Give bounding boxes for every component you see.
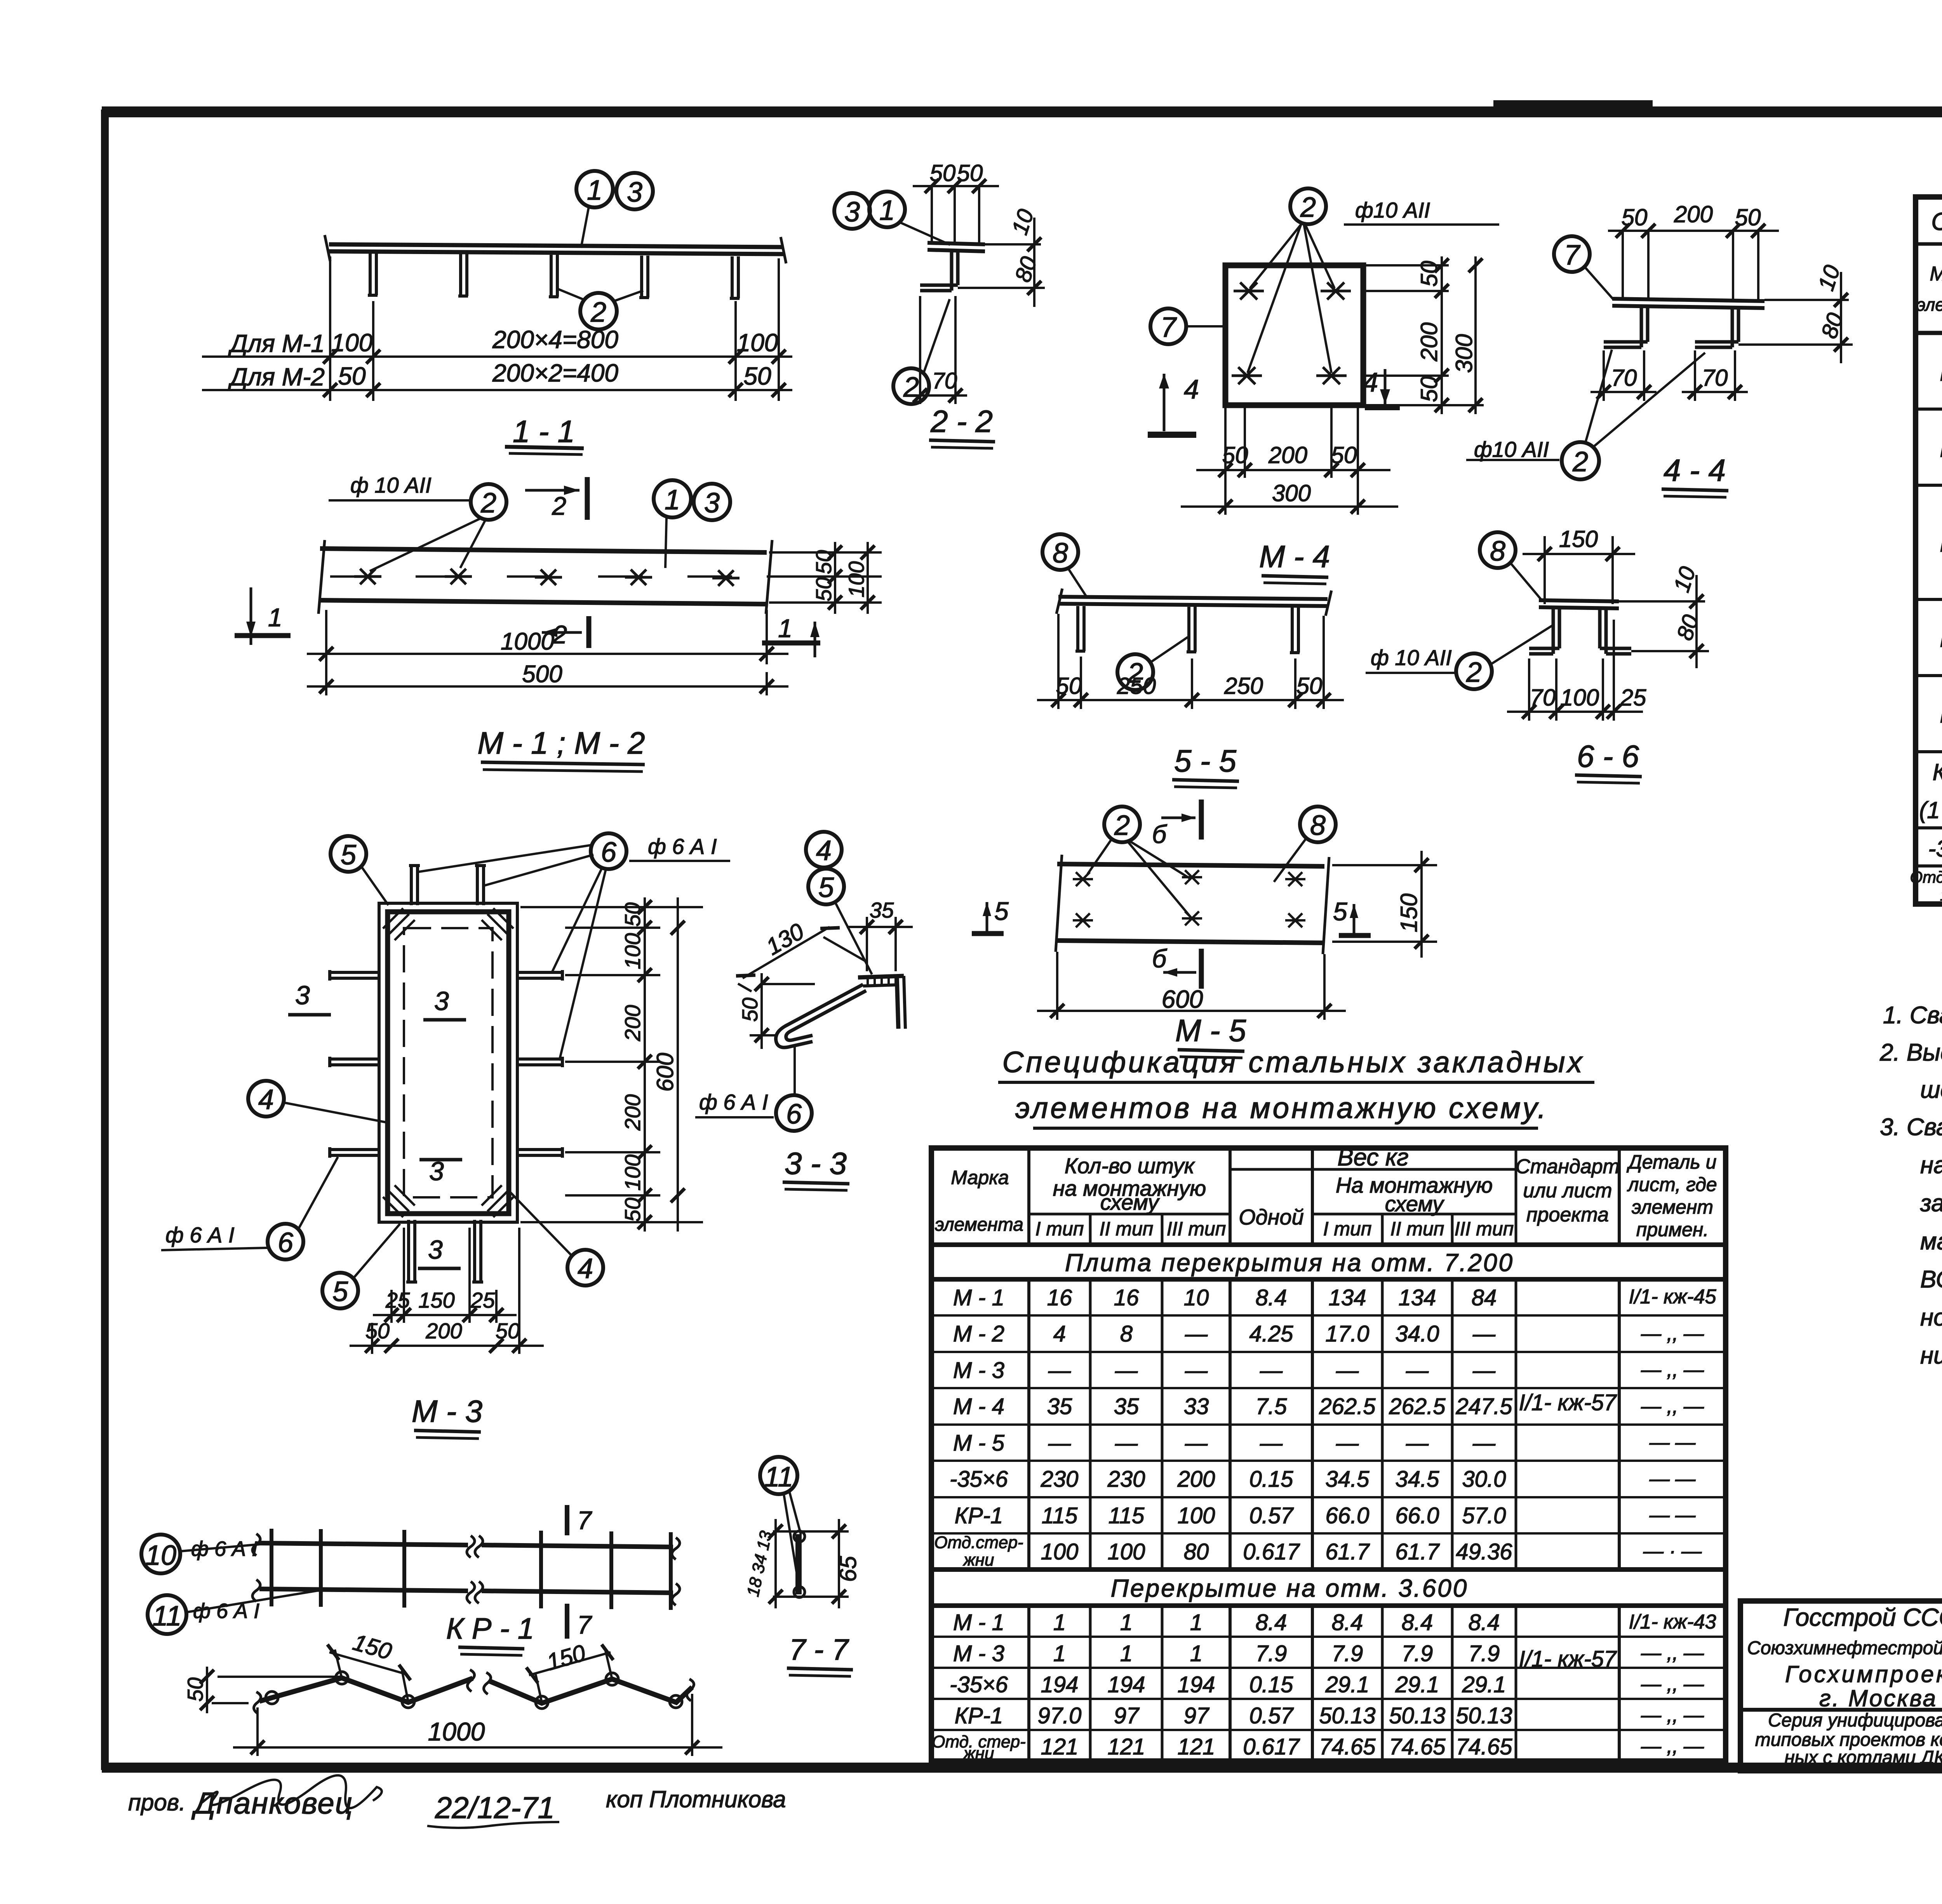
section mark 3 (inside top) (423, 986, 466, 1020)
svg-text:65: 65 (835, 1556, 861, 1582)
svg-text:элемента: элемента (935, 1214, 1023, 1235)
svg-text:0.57: 0.57 (1249, 1503, 1295, 1528)
label 1-1 (505, 414, 584, 455)
svg-text:-35×6: -35×6 (950, 1672, 1008, 1697)
svg-text:100: 100 (1560, 685, 1599, 711)
svg-text:34.0: 34.0 (1396, 1321, 1439, 1347)
svg-text:6: 6 (278, 1227, 294, 1258)
svg-text:2. Высоту сварных швов прин: 2. Высоту сварных швов принять по наимен… (1879, 1039, 1942, 1066)
svg-text:1000: 1000 (501, 628, 554, 655)
svg-text:7.9: 7.9 (1332, 1641, 1363, 1666)
М-4 bottom total 300 (1181, 478, 1398, 515)
svg-text:I/1- кж-43: I/1- кж-43 (1629, 1611, 1716, 1633)
svg-text:2: 2 (552, 620, 567, 649)
svg-text:1. Сварку производить электр: 1. Сварку производить электродами типа Э… (1883, 1002, 1942, 1029)
svg-text:— ,, —: — ,, — (1641, 1673, 1704, 1695)
svg-text:ф 6 А I: ф 6 А I (191, 1537, 258, 1561)
svg-text:6: 6 (601, 837, 617, 868)
svg-text:194: 194 (1041, 1672, 1079, 1697)
М-4 right total 300 (1451, 256, 1483, 414)
label КР-1 (446, 1612, 534, 1655)
svg-text:Госхимпроект: Госхимпроект (1785, 1661, 1942, 1687)
callout circle 2 (4-4) (1562, 350, 1705, 479)
svg-text:50.13: 50.13 (1456, 1703, 1512, 1728)
svg-text:7 - 7: 7 - 7 (789, 1633, 849, 1666)
zigzag node circles (266, 1672, 682, 1709)
М-3 angle frame (pos 4,5) (379, 903, 517, 1222)
М-5 bottom dim 600 (1037, 952, 1346, 1020)
svg-text:7.9: 7.9 (1402, 1641, 1433, 1666)
svg-text:4: 4 (1363, 367, 1378, 397)
svg-text:1: 1 (1120, 1641, 1133, 1666)
svg-text:16: 16 (1047, 1285, 1072, 1310)
svg-text:Дпанковец: Дпанковец (191, 1786, 353, 1820)
label ф10АII (М-4) (1344, 198, 1499, 225)
svg-text:—: — (1185, 1358, 1208, 1383)
svg-text:4: 4 (258, 1084, 274, 1115)
svg-text:— ,, —: — ,, — (1641, 1735, 1704, 1758)
svg-text:50: 50 (365, 1319, 390, 1343)
svg-text:11: 11 (153, 1601, 182, 1632)
callout circle 11 (7-7) (760, 1457, 801, 1589)
svg-text:66.0: 66.0 (1326, 1503, 1369, 1528)
svg-text:2: 2 (590, 297, 606, 328)
svg-text:Отд.стер-: Отд.стер- (934, 1533, 1023, 1552)
svg-text:—: — (1115, 1430, 1138, 1456)
label ф6АI + callout circle 6 (3-3) (695, 1090, 774, 1117)
svg-text:Кол-во штук: Кол-во штук (1065, 1153, 1195, 1178)
svg-text:М - 1: М - 1 (953, 1285, 1004, 1310)
svg-text:50: 50 (1416, 261, 1442, 287)
label М-3 (412, 1394, 482, 1439)
svg-text:КР-1: КР-1 (955, 1703, 1003, 1728)
КР-1 zigzag (pos 11 wire) (259, 1678, 692, 1703)
svg-text:50.13: 50.13 (1389, 1703, 1445, 1728)
svg-text:3: 3 (627, 177, 642, 208)
svg-text:97.0: 97.0 (1038, 1703, 1082, 1728)
svg-text:ф 6 А I: ф 6 А I (648, 834, 717, 859)
svg-text:шей толщине свариваемых эле: шей толщине свариваемых элементов. (1920, 1077, 1942, 1103)
central table grid (931, 1148, 1726, 1761)
svg-text:5: 5 (818, 872, 834, 903)
svg-text:заниями по технологии элект: заниями по технологии электросварки ар- (1920, 1190, 1942, 1217)
callout circle 4 (М-3 left) (248, 1081, 388, 1123)
svg-text:115: 115 (1108, 1503, 1145, 1528)
svg-text:100: 100 (844, 561, 868, 598)
svg-text:200: 200 (1177, 1467, 1215, 1492)
svg-text:0.617: 0.617 (1243, 1539, 1300, 1564)
title block org (1747, 1603, 1942, 1768)
svg-text:Плита перекрытия на отм. 7.: Плита перекрытия на отм. 7.200 (1065, 1249, 1514, 1277)
svg-text:11: 11 (764, 1462, 794, 1493)
notes text (1879, 1002, 1942, 1369)
callout circle 10 + label (141, 1535, 260, 1573)
svg-text:1: 1 (1053, 1641, 1066, 1666)
svg-text:29.1: 29.1 (1325, 1672, 1369, 1697)
М-4 plate outline (pos 7) (1225, 265, 1363, 405)
5-5 plate (pos 8) (1056, 589, 1331, 616)
М-3 corner welds (383, 908, 513, 1217)
КР-1 cross rods (pos 11) (271, 1529, 671, 1610)
spec table col Марка элемента (1910, 360, 1942, 904)
svg-text:0.617: 0.617 (1243, 1734, 1300, 1759)
svg-text:М - 1 ; М - 2: М - 1 ; М - 2 (477, 726, 645, 760)
svg-text:М-4: М-4 (1940, 626, 1942, 652)
2-2 anchor plate (pos 1) (927, 243, 985, 251)
svg-text:29.1: 29.1 (1462, 1672, 1506, 1697)
7-7 bar (794, 1531, 805, 1597)
callout circle 2 (6-6) (1456, 625, 1554, 689)
svg-text:50: 50 (338, 362, 366, 390)
callout circle 2 (5-5) (1117, 637, 1188, 690)
dim 70 (2-2) (909, 296, 967, 404)
svg-text:—: — (1260, 1430, 1283, 1456)
svg-text:230: 230 (1041, 1467, 1079, 1492)
svg-text:III тип: III тип (1167, 1218, 1226, 1240)
svg-text:—: — (1260, 1358, 1283, 1383)
svg-text:3: 3 (844, 197, 860, 228)
svg-text:3 - 3: 3 - 3 (785, 1146, 847, 1181)
4-4 bottom dims 70 70 (1590, 350, 1748, 401)
svg-text:50: 50 (738, 998, 762, 1022)
section mark 2 below (542, 616, 589, 649)
svg-text:8: 8 (1490, 536, 1505, 567)
svg-text:25: 25 (1620, 685, 1646, 711)
svg-text:проекта: проекта (1526, 1204, 1609, 1226)
svg-text:5: 5 (1333, 897, 1347, 926)
svg-text:100: 100 (737, 329, 778, 357)
svg-text:250: 250 (1224, 673, 1263, 699)
svg-text:49.36: 49.36 (1456, 1539, 1512, 1564)
svg-text:ф 6 А I: ф 6 А I (699, 1090, 768, 1114)
section mark 5 right (1333, 897, 1371, 935)
callout circle 11 + label (148, 1590, 321, 1634)
svg-text:— —: — — (1649, 1468, 1696, 1490)
svg-text:I тип: I тип (1035, 1218, 1084, 1240)
svg-text:2: 2 (1114, 810, 1130, 841)
svg-text:Одной: Одной (1239, 1205, 1304, 1229)
svg-text:70: 70 (932, 368, 957, 394)
svg-text:50.13: 50.13 (1319, 1703, 1375, 1728)
svg-text:ф 6 А I: ф 6 А I (165, 1223, 235, 1247)
callout circle 2 (556, 288, 643, 329)
svg-text:КР-1: КР-1 (1933, 759, 1942, 785)
svg-text:или лист: или лист (1523, 1179, 1612, 1202)
svg-text:3: 3 (428, 1235, 443, 1265)
section mark 6 below (1152, 944, 1201, 989)
svg-text:б: б (1152, 820, 1168, 848)
callout circle 2 (2-2) (893, 299, 950, 404)
svg-text:ных с котлами ДКВР.: ных с котлами ДКВР. (1784, 1747, 1942, 1768)
central table block 1 rows (934, 1285, 1512, 1570)
svg-text:200×2=400: 200×2=400 (492, 359, 618, 387)
view 1-1 studs (pos 2) (368, 253, 740, 298)
section mark 6 above (1152, 800, 1201, 848)
zigzag dim 150 right (526, 1639, 613, 1702)
М-3 top rods (pos 6) (409, 866, 486, 905)
М-3 bottom rods (pos 6) (406, 1220, 483, 1282)
svg-text:50: 50 (743, 362, 771, 390)
2-2 bent rod (pos 2) (920, 251, 958, 291)
section mark 1 left (235, 587, 291, 645)
svg-text:М-2: М-2 (1940, 436, 1942, 462)
svg-text:2: 2 (480, 488, 496, 519)
М-1 anchors (pos 2) (354, 569, 740, 586)
svg-text:262.5: 262.5 (1319, 1394, 1376, 1419)
svg-text:Для М-2: Для М-2 (228, 363, 325, 391)
svg-text:— ,, —: — ,, — (1641, 1322, 1704, 1345)
svg-text:ф10 АII: ф10 АII (1355, 198, 1430, 222)
svg-text:1: 1 (587, 175, 602, 206)
svg-text:230: 230 (1107, 1467, 1145, 1492)
svg-text:134: 134 (1329, 1285, 1366, 1310)
section mark 7 bottom (567, 1604, 592, 1639)
dim 50 50 above 2-2 (913, 160, 999, 243)
svg-text:34.5: 34.5 (1396, 1467, 1440, 1492)
svg-text:1: 1 (1120, 1610, 1133, 1635)
svg-text:100: 100 (1178, 1503, 1215, 1528)
central table headers (935, 1144, 1717, 1240)
6-6 plate (pos 8) (1539, 600, 1619, 608)
callout circle 5 (М-3 top) (331, 836, 388, 905)
svg-text:-35×6: -35×6 (1928, 836, 1942, 862)
callout circle 8 (5-5) (1042, 534, 1088, 598)
svg-text:1: 1 (778, 614, 792, 643)
zigzag dim 150 left (327, 1629, 411, 1702)
svg-text:97: 97 (1184, 1703, 1210, 1728)
svg-text:6: 6 (786, 1099, 802, 1130)
2-2 right dims 10 / 80 (958, 206, 1045, 307)
label ф10АII (6-6) (1366, 645, 1457, 673)
spec table headers (1917, 246, 1942, 327)
callout circle 8 (М-5) (1274, 807, 1336, 882)
svg-text:М - 5: М - 5 (953, 1430, 1005, 1456)
svg-text:Марка: Марка (951, 1167, 1009, 1188)
callout circle 7 (М-4) (1150, 308, 1227, 344)
svg-text:8: 8 (1120, 1321, 1133, 1347)
svg-text:М - 3: М - 3 (953, 1358, 1004, 1383)
svg-text:I/1- кж-57: I/1- кж-57 (1519, 1390, 1617, 1415)
svg-text:500: 500 (522, 661, 562, 688)
svg-text:Вес кг: Вес кг (1337, 1144, 1408, 1171)
svg-text:262.5: 262.5 (1389, 1394, 1446, 1419)
svg-text:8.4: 8.4 (1402, 1610, 1433, 1635)
svg-text:247.5: 247.5 (1455, 1394, 1512, 1419)
svg-text:10: 10 (1184, 1285, 1209, 1310)
3-3 angle (pos 5) (858, 976, 905, 1029)
svg-text:М - 2: М - 2 (953, 1321, 1004, 1347)
svg-text:4.25: 4.25 (1249, 1321, 1294, 1347)
svg-text:М - 4: М - 4 (953, 1394, 1004, 1419)
dim 1000 (М-1) (307, 610, 788, 695)
svg-text:жни: жни (963, 1744, 994, 1763)
svg-text:5: 5 (332, 1276, 348, 1307)
section mark 5 left (972, 897, 1009, 934)
zigzag dim 1000 (233, 1694, 722, 1756)
signature пров (128, 1786, 786, 1825)
svg-text:200: 200 (620, 1094, 645, 1131)
svg-text:50: 50 (811, 577, 836, 601)
svg-text:29.1: 29.1 (1395, 1672, 1439, 1697)
svg-text:200×4=800: 200×4=800 (492, 326, 618, 354)
svg-text:— —: — — (1649, 1431, 1696, 1454)
label 2-2 (929, 404, 995, 448)
central table col10 block1 (1629, 1286, 1716, 1563)
svg-text:61.7: 61.7 (1326, 1539, 1371, 1564)
callout circle 5 (М-3 bottom) (322, 1224, 400, 1308)
svg-text:— ,, —: — ,, — (1641, 1704, 1704, 1726)
svg-text:10: 10 (145, 1540, 176, 1571)
svg-text:М-1: М-1 (1940, 360, 1942, 386)
М-5 plate plan (pos 8) (1056, 855, 1329, 954)
callout circle 4 (М-3 bottom right) (509, 1191, 603, 1286)
label ф6АI + callout circle 6 (М-3 left) (161, 1223, 267, 1250)
svg-text:250: 250 (1117, 673, 1156, 699)
section mark 1 right (762, 614, 820, 657)
svg-text:нопрочности сварных швов: нопрочности сварных швов сече- (1920, 1304, 1942, 1331)
svg-text:М - 4: М - 4 (1259, 539, 1330, 574)
svg-text:I тип: I тип (1323, 1218, 1372, 1240)
svg-text:121: 121 (1108, 1734, 1145, 1759)
svg-text:1: 1 (1053, 1610, 1066, 1635)
svg-text:600: 600 (652, 1053, 678, 1092)
svg-text:—: — (1472, 1430, 1496, 1456)
svg-text:121: 121 (1041, 1734, 1079, 1759)
svg-text:115: 115 (1042, 1503, 1078, 1528)
svg-text:3: 3 (295, 981, 310, 1010)
svg-text:2: 2 (552, 491, 566, 520)
section mark 4 right (1363, 367, 1400, 407)
М-3 right rods (pos 6) (516, 970, 562, 1158)
svg-text:74.65: 74.65 (1456, 1734, 1512, 1759)
М-5 right dim 150 (1332, 851, 1437, 958)
М-3 bottom dims 50 200 50 (350, 1228, 544, 1354)
dim row Для М-2 (202, 359, 792, 397)
svg-text:74.65: 74.65 (1319, 1734, 1376, 1759)
svg-text:Деталь и: Деталь и (1627, 1151, 1717, 1173)
svg-text:I/1- кж-45: I/1- кж-45 (1629, 1286, 1716, 1308)
svg-text:100: 100 (331, 329, 373, 357)
svg-text:Отд.стержк: Отд.стержк (1910, 868, 1942, 886)
3-3 dim 35 (847, 898, 913, 971)
svg-text:жни: жни (963, 1550, 994, 1570)
label М-5 (1175, 1013, 1246, 1058)
6-6 bottom dims 70 100 25 (1507, 620, 1646, 721)
svg-text:2: 2 (1300, 192, 1316, 223)
svg-text:4: 4 (1184, 374, 1199, 404)
svg-text:элементов на монтажную с: элементов на монтажную схему. (1015, 1092, 1548, 1125)
svg-text:—: — (1472, 1321, 1496, 1347)
М-3 left rods (pos 6) (330, 970, 381, 1158)
svg-text:коп Плотникова: коп Плотникова (606, 1786, 786, 1812)
svg-text:8.4: 8.4 (1256, 1285, 1287, 1310)
svg-text:0.15: 0.15 (1249, 1672, 1294, 1697)
svg-text:35: 35 (1047, 1394, 1072, 1419)
3-3 bent rod (pos 6) (776, 984, 867, 1047)
6-6 right dims 10 / 80 (1619, 564, 1709, 668)
svg-text:30.0: 30.0 (1462, 1467, 1506, 1492)
callout circle 1 (2-2) (869, 192, 950, 245)
svg-text:1 п.м: 1 п.м (1940, 886, 1942, 904)
М-3 right dim chain 50/100/200/200/100/50 (520, 897, 703, 1232)
svg-text:4: 4 (816, 835, 832, 866)
svg-text:5 - 5: 5 - 5 (1174, 744, 1237, 778)
view 1-1 plate (325, 235, 786, 263)
svg-text:1 - 1: 1 - 1 (513, 414, 575, 449)
svg-text:г. Москва: г. Москва (1819, 1685, 1937, 1711)
3-3 dim 50 (738, 973, 815, 1049)
svg-text:—: — (1472, 1358, 1496, 1383)
callout circle 3 (2-2) (834, 193, 870, 229)
callout circle 1 (576, 171, 613, 248)
svg-text:1000: 1000 (428, 1717, 485, 1746)
svg-text:100: 100 (1108, 1539, 1145, 1564)
svg-text:4 - 4: 4 - 4 (1664, 453, 1726, 488)
svg-text:— ,, —: — ,, — (1641, 1642, 1704, 1664)
svg-text:8.4: 8.4 (1332, 1610, 1363, 1635)
svg-text:КР-1: КР-1 (955, 1503, 1003, 1528)
svg-text:7: 7 (577, 1610, 592, 1639)
КР-1 top chord (pos 10) (259, 1543, 673, 1593)
svg-text:1: 1 (879, 195, 895, 226)
callout circle 6 (М-3 top) + label (416, 833, 626, 1061)
svg-text:1: 1 (665, 484, 680, 516)
svg-text:-35×6: -35×6 (950, 1467, 1008, 1492)
svg-text:Спецификация стальных закл: Спецификация стальных закладных (1002, 1046, 1584, 1079)
svg-text:—: — (1048, 1358, 1071, 1383)
М-1 right dims 50 50 100 (767, 542, 882, 614)
svg-text:600: 600 (1162, 985, 1203, 1013)
svg-text:8.4: 8.4 (1256, 1610, 1287, 1635)
svg-text:2 - 2: 2 - 2 (930, 404, 993, 439)
4-4 plate (pos 7) (1612, 299, 1765, 308)
svg-text:7: 7 (577, 1506, 592, 1535)
svg-text:34.5: 34.5 (1326, 1467, 1370, 1492)
М-3 bottom dims 25 150 25 (373, 1228, 517, 1323)
svg-text:57.0: 57.0 (1462, 1503, 1506, 1528)
central table block 2 rows (932, 1610, 1512, 1763)
svg-text:4: 4 (1053, 1321, 1066, 1347)
svg-text:33: 33 (1184, 1394, 1209, 1419)
svg-text:200: 200 (425, 1319, 462, 1343)
svg-text:ф 10 АII: ф 10 АII (350, 473, 432, 497)
6-6 bent rods (pos 2) (1529, 608, 1631, 654)
5-5 studs (pos 2) (1075, 606, 1300, 653)
М-1 plate plan (318, 540, 800, 614)
svg-text:22/12-71: 22/12-71 (435, 1791, 555, 1825)
label 5-5 (1172, 744, 1239, 788)
svg-text:—: — (1185, 1321, 1208, 1347)
callout circle 2 (М-5) (1088, 807, 1190, 917)
svg-text:2: 2 (1466, 657, 1482, 688)
svg-text:300: 300 (1451, 334, 1477, 373)
dim 150 above 6-6 (1523, 526, 1635, 604)
svg-text:80: 80 (1184, 1539, 1209, 1564)
svg-text:3. Сварку круглых стержней: 3. Сварку круглых стержней 8ТАВР с пласт… (1880, 1114, 1942, 1141)
svg-text:25: 25 (470, 1288, 495, 1312)
svg-text:200: 200 (1674, 201, 1713, 227)
svg-text:лист, где: лист, где (1627, 1174, 1717, 1195)
title block frame (1740, 1601, 1942, 1771)
svg-text:50: 50 (620, 902, 645, 927)
label 4-4 (1662, 453, 1728, 497)
svg-text:66.0: 66.0 (1396, 1503, 1439, 1528)
section mark 7 top (567, 1505, 592, 1535)
svg-text:84: 84 (1472, 1285, 1497, 1310)
svg-text:4: 4 (578, 1253, 593, 1284)
svg-text:300: 300 (1272, 480, 1311, 506)
svg-text:1: 1 (1190, 1610, 1202, 1635)
